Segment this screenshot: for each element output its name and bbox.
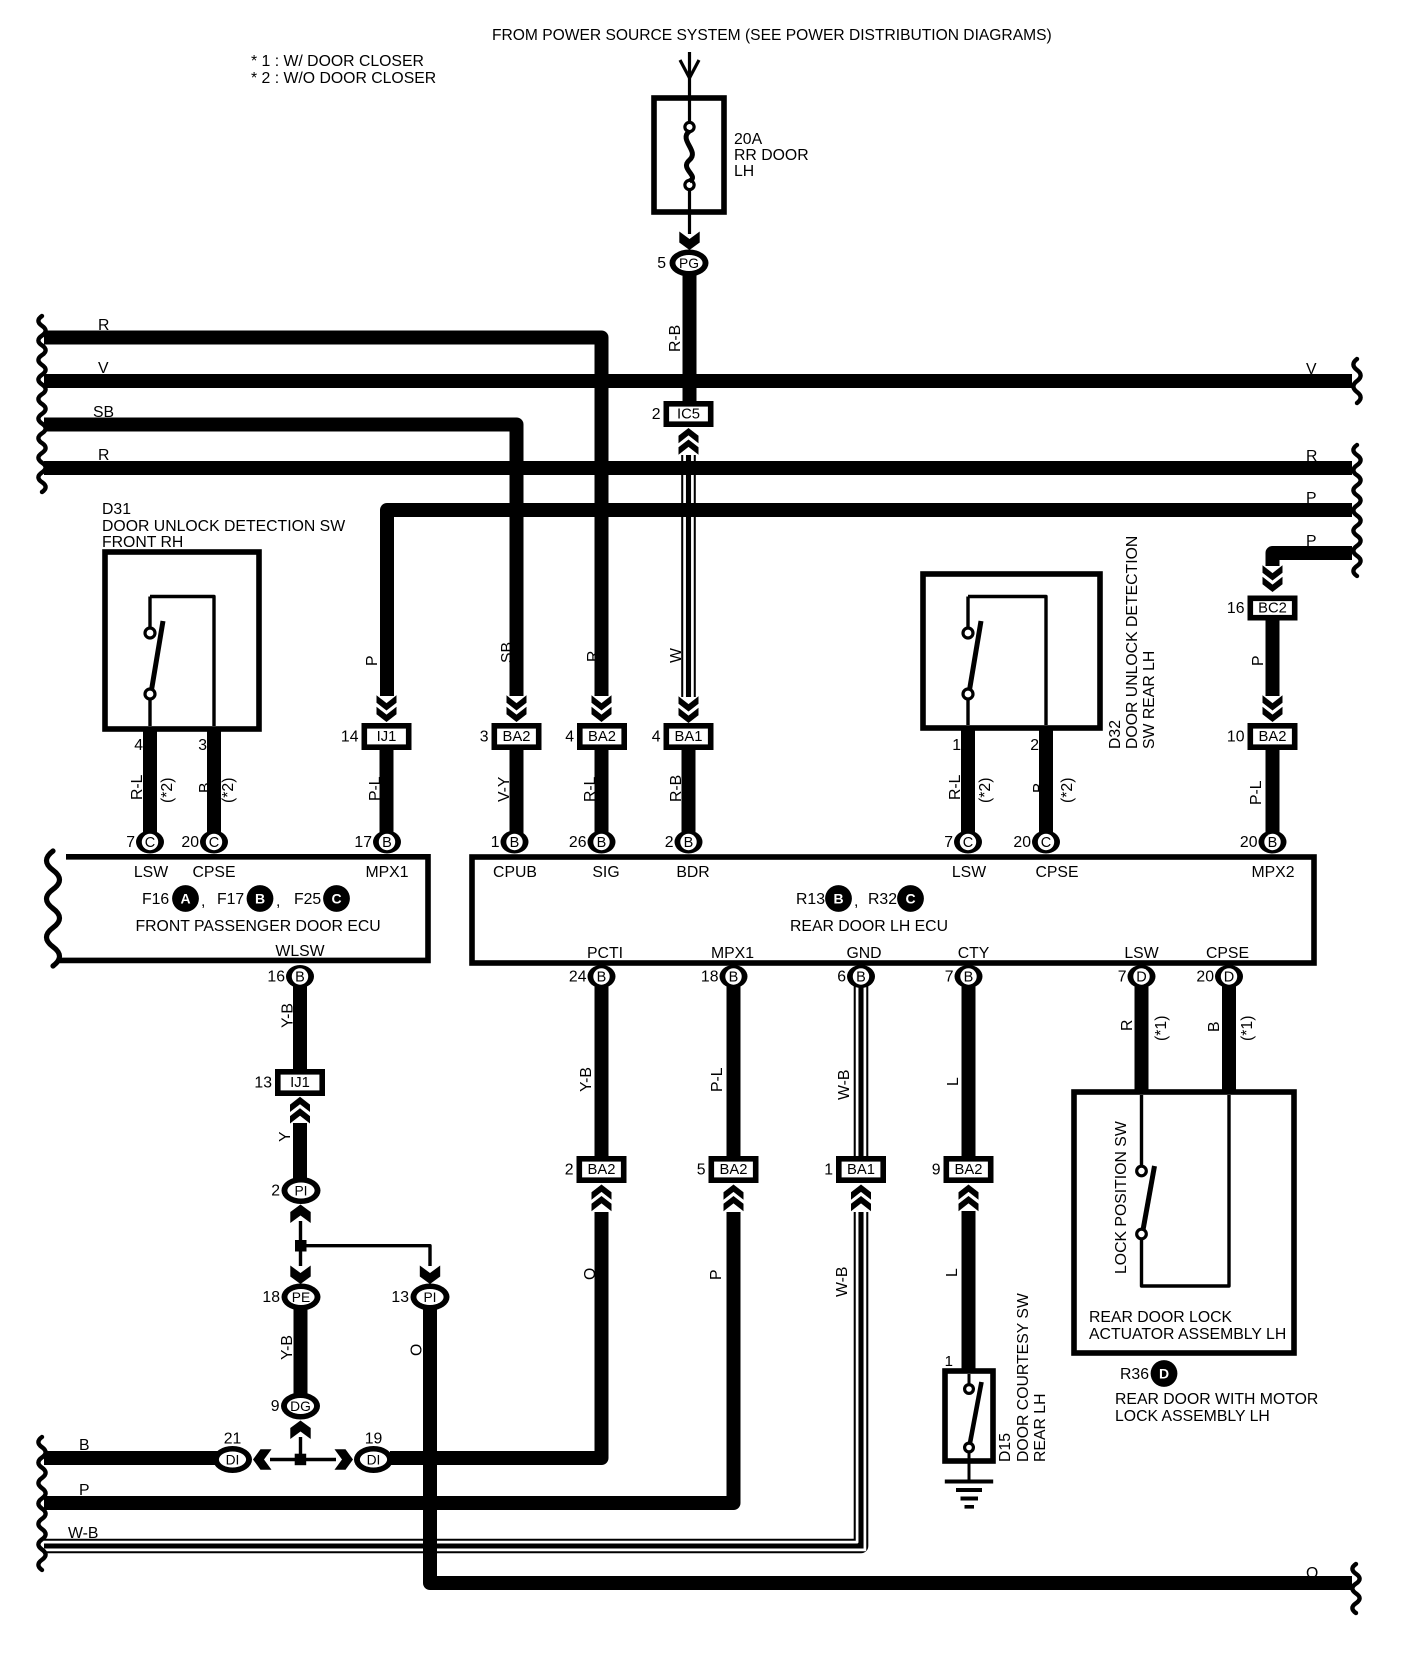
svg-text:SB: SB	[93, 404, 114, 421]
svg-text:9: 9	[271, 1398, 280, 1415]
svg-text:D32: D32	[1107, 720, 1124, 749]
wire between DI connectors	[270, 1458, 336, 1461]
svg-text:SIG: SIG	[592, 864, 619, 881]
svg-text:R: R	[585, 651, 602, 662]
junction node on B wire	[295, 1454, 307, 1466]
svg-text:B: B	[1206, 1021, 1223, 1032]
right bus terminator curl V	[1353, 359, 1360, 403]
arrow into PE	[290, 1266, 310, 1285]
svg-text:7: 7	[1118, 969, 1127, 986]
wire L pin7 to BA2	[962, 976, 976, 1156]
svg-text:B: B	[1031, 782, 1048, 793]
svg-text:LOCK ASSEMBLY LH: LOCK ASSEMBLY LH	[1115, 1408, 1270, 1425]
svg-text:20: 20	[181, 834, 199, 851]
svg-text:C: C	[905, 891, 915, 907]
svg-text:B: B	[833, 891, 843, 907]
svg-text:CPSE: CPSE	[1035, 864, 1078, 881]
arrow into BA2 pin3	[507, 695, 527, 710]
svg-text:CPSE: CPSE	[1206, 945, 1249, 962]
svg-text:C: C	[1041, 835, 1051, 851]
hollow wire W from IC5 to BA1	[681, 455, 696, 697]
svg-text:BA2: BA2	[588, 1162, 616, 1178]
left bus terminator curl	[38, 316, 45, 492]
svg-text:R13: R13	[796, 891, 825, 908]
wire DG to B bus junction	[299, 1437, 302, 1458]
arrow into BC2	[1263, 565, 1283, 580]
svg-text:V: V	[1306, 361, 1317, 378]
arrow into PI 13	[420, 1266, 440, 1285]
svg-text:DI: DI	[226, 1452, 240, 1467]
svg-text:D: D	[1159, 1366, 1169, 1382]
switch D15 box	[945, 1371, 993, 1461]
svg-text:R32: R32	[868, 891, 897, 908]
svg-text:20A: 20A	[734, 131, 763, 148]
svg-text:W-B: W-B	[836, 1070, 853, 1100]
svg-text:Y-B: Y-B	[279, 1335, 296, 1360]
svg-text:FRONT PASSENGER DOOR ECU: FRONT PASSENGER DOOR ECU	[136, 918, 381, 935]
svg-text:B: B	[79, 1437, 90, 1454]
svg-text:,: ,	[276, 893, 280, 910]
svg-text:IJ1: IJ1	[377, 729, 397, 745]
ground symbol	[945, 1480, 993, 1484]
svg-text:6: 6	[837, 969, 846, 986]
svg-text:D: D	[1224, 970, 1234, 986]
wire R-L from BA2 to SIG pin	[595, 750, 609, 848]
wire R-B from PG to IC5	[683, 275, 697, 403]
svg-text:PCTI: PCTI	[587, 945, 623, 962]
wire junction down to PE	[299, 1247, 302, 1266]
switch D31 contacts	[150, 597, 214, 727]
svg-text:DOOR COURTESY SW: DOOR COURTESY SW	[1015, 1293, 1032, 1462]
rear door lock actuator assembly box	[1074, 1092, 1294, 1353]
svg-text:MPX1: MPX1	[711, 945, 754, 962]
bus wire W-B hollow bottom	[44, 1212, 861, 1546]
bus wire SB	[44, 425, 517, 697]
right bus terminator curl R P P	[1353, 445, 1360, 576]
svg-text:Y-B: Y-B	[280, 1003, 297, 1028]
rear door LH ECU box	[472, 857, 1314, 963]
wire V-Y from BA2 to CPUB pin	[510, 750, 524, 848]
svg-text:A: A	[180, 891, 190, 907]
svg-text:* 1 : W/ DOOR CLOSER: * 1 : W/ DOOR CLOSER	[251, 53, 424, 70]
svg-text:4: 4	[565, 729, 574, 746]
svg-text:R: R	[1306, 448, 1317, 465]
svg-text:REAR DOOR WITH MOTOR: REAR DOOR WITH MOTOR	[1115, 1391, 1318, 1408]
svg-text:D: D	[1136, 970, 1146, 986]
svg-text:P: P	[708, 1269, 725, 1280]
svg-text:B: B	[684, 835, 694, 851]
svg-text:FRONT RH: FRONT RH	[102, 534, 183, 551]
front passenger door ECU box	[58, 857, 428, 961]
svg-text:R: R	[98, 447, 109, 464]
svg-text:2: 2	[565, 1162, 574, 1179]
wire P-L from BA2 to MPX2 pin	[1266, 750, 1280, 848]
svg-text:C: C	[331, 891, 341, 907]
bus wire V	[44, 374, 1352, 388]
svg-text:BA1: BA1	[847, 1162, 875, 1178]
svg-text:9: 9	[932, 1162, 941, 1179]
svg-text:REAR DOOR LOCK: REAR DOOR LOCK	[1089, 1309, 1233, 1326]
svg-text:O: O	[1306, 1565, 1318, 1582]
arrow into BA2 pin4	[592, 695, 612, 710]
svg-text:19: 19	[365, 1431, 383, 1448]
svg-text:C: C	[963, 835, 973, 851]
svg-text:BA2: BA2	[503, 729, 531, 745]
junction node below PI	[295, 1240, 307, 1252]
wire L from BA2 to D15	[962, 1211, 976, 1372]
svg-text:P-L: P-L	[1248, 780, 1265, 805]
right bottom bus terminator curl	[1352, 1564, 1359, 1613]
svg-text:BC2: BC2	[1258, 601, 1287, 617]
svg-text:* 2 : W/O DOOR CLOSER: * 2 : W/O DOOR CLOSER	[251, 70, 436, 87]
arrow up into BA2 pin9	[959, 1185, 979, 1212]
svg-text:F25: F25	[294, 891, 321, 908]
arrow right into DI 19	[335, 1449, 354, 1469]
svg-text:SW REAR LH: SW REAR LH	[1141, 651, 1158, 749]
arrow up into BA2 pin5	[724, 1185, 744, 1212]
svg-text:2: 2	[271, 1183, 280, 1200]
svg-text:GND: GND	[846, 945, 881, 962]
svg-text:24: 24	[569, 969, 587, 986]
svg-text:FROM POWER SOURCE SYSTEM (SEE: FROM POWER SOURCE SYSTEM (SEE POWER DIST…	[492, 27, 1052, 44]
svg-text:R-L: R-L	[129, 774, 146, 800]
svg-text:B: B	[856, 970, 866, 986]
svg-text:1: 1	[952, 737, 961, 754]
svg-text:SB: SB	[499, 642, 516, 663]
svg-text:BA2: BA2	[1259, 729, 1287, 745]
svg-text:7: 7	[126, 834, 135, 851]
svg-text:1: 1	[491, 834, 500, 851]
svg-text:P-L: P-L	[709, 1067, 726, 1092]
svg-text:BA2: BA2	[720, 1162, 748, 1178]
svg-text:20: 20	[1240, 834, 1258, 851]
svg-text:L: L	[945, 1077, 962, 1086]
svg-text:P-L: P-L	[367, 776, 384, 801]
svg-text:ACTUATOR ASSEMBLY LH: ACTUATOR ASSEMBLY LH	[1089, 1326, 1286, 1343]
svg-text:21: 21	[224, 1431, 242, 1448]
svg-text:F16: F16	[142, 891, 169, 908]
svg-text:P: P	[1306, 490, 1317, 507]
svg-text:(*2): (*2)	[977, 778, 994, 803]
wire fuse to connector PG	[688, 212, 691, 234]
svg-text:B: B	[382, 835, 392, 851]
svg-text:(*2): (*2)	[159, 778, 176, 803]
svg-text:R-L: R-L	[947, 774, 964, 800]
svg-text:(*1): (*1)	[1239, 1016, 1256, 1041]
svg-text:W-B: W-B	[834, 1267, 851, 1297]
svg-text:(*2): (*2)	[220, 778, 237, 803]
svg-text:4: 4	[134, 737, 143, 754]
hollow wire W-B pin6 to BA1	[854, 976, 869, 1156]
bus wire R lower	[44, 461, 1352, 475]
svg-text:C: C	[209, 835, 219, 851]
svg-text:5: 5	[657, 255, 666, 272]
svg-text:R36: R36	[1120, 1366, 1149, 1383]
svg-text:F17: F17	[217, 891, 244, 908]
wire Y-B from WLSW pin to IJ1	[293, 976, 307, 1070]
svg-text:BA1: BA1	[675, 729, 703, 745]
svg-text:2: 2	[665, 834, 674, 851]
svg-text:18: 18	[701, 969, 719, 986]
svg-text:R-B: R-B	[668, 775, 685, 802]
bus wire R upper	[44, 338, 602, 697]
svg-text:REAR DOOR LH ECU: REAR DOOR LH ECU	[790, 918, 948, 935]
svg-text:R-L: R-L	[582, 776, 599, 802]
wire R-B from BA1 to BDR pin	[682, 750, 696, 848]
svg-text:2: 2	[1030, 737, 1039, 754]
svg-text:4: 4	[652, 729, 661, 746]
wire O from DI 19 to BA2 pin2	[390, 1212, 602, 1458]
svg-text:(*1): (*1)	[1153, 1016, 1170, 1041]
svg-text:17: 17	[354, 834, 372, 851]
svg-text:(*2): (*2)	[1059, 778, 1076, 803]
svg-text:WLSW: WLSW	[275, 943, 324, 960]
svg-text:3: 3	[198, 737, 207, 754]
arrow left into DI 21	[253, 1449, 272, 1469]
svg-text:10: 10	[1227, 729, 1245, 746]
bus wire B bottom	[44, 1451, 218, 1465]
svg-text:DOOR UNLOCK DETECTION: DOOR UNLOCK DETECTION	[1124, 536, 1141, 749]
svg-text:P: P	[1306, 533, 1317, 550]
svg-text:PI: PI	[294, 1183, 307, 1198]
svg-text:C: C	[145, 835, 155, 851]
svg-text:LSW: LSW	[134, 864, 168, 881]
svg-text:BA2: BA2	[588, 729, 616, 745]
svg-text:B: B	[255, 891, 265, 907]
svg-text:Y-B: Y-B	[578, 1067, 595, 1092]
switch D31 box	[105, 552, 259, 729]
bus wire P bottom	[44, 1212, 734, 1503]
wire Y from IJ1 to PI	[293, 1123, 307, 1180]
arrow into PG	[679, 232, 699, 251]
arrow up into PI bottom	[290, 1205, 310, 1224]
svg-text:LSW: LSW	[952, 864, 986, 881]
svg-text:P: P	[1250, 655, 1267, 666]
svg-text:R: R	[1119, 1020, 1136, 1031]
svg-text:16: 16	[1227, 600, 1245, 617]
svg-text:CTY: CTY	[958, 945, 990, 962]
svg-text:IJ1: IJ1	[290, 1075, 310, 1091]
svg-text:LH: LH	[734, 163, 754, 180]
svg-text:R-B: R-B	[667, 325, 684, 352]
svg-text:2: 2	[652, 406, 661, 423]
svg-text:MPX2: MPX2	[1251, 864, 1294, 881]
wire P-L pin18 to BA2	[727, 976, 741, 1156]
svg-text:B: B	[295, 970, 305, 986]
svg-text:V-Y: V-Y	[496, 776, 513, 802]
svg-text:REAR LH: REAR LH	[1032, 1394, 1049, 1462]
svg-text:D31: D31	[102, 501, 131, 518]
switch D32 contacts	[968, 597, 1046, 726]
svg-text:R: R	[98, 317, 109, 334]
svg-text:14: 14	[341, 729, 359, 746]
svg-text:,: ,	[201, 893, 205, 910]
svg-text:D15: D15	[997, 1433, 1014, 1462]
svg-text:CPUB: CPUB	[493, 864, 537, 881]
wire O from PI 13 to bottom bus	[430, 1309, 1352, 1583]
wire P-L from IJ1 to MPX1 pin	[380, 750, 394, 848]
svg-text:PE: PE	[292, 1290, 310, 1305]
arrow up into IJ1 bottom	[290, 1097, 310, 1124]
svg-text:BDR: BDR	[676, 864, 709, 881]
svg-text:B: B	[964, 970, 974, 986]
svg-text:16: 16	[267, 969, 285, 986]
arrow into IJ1	[377, 695, 397, 710]
svg-text:1: 1	[824, 1162, 833, 1179]
wire P from BC2 to BA2	[1266, 620, 1280, 696]
svg-text:3: 3	[480, 729, 489, 746]
wire D31 pin4 to LSW	[143, 727, 157, 848]
svg-text:L: L	[944, 1268, 961, 1277]
switch D15 contacts	[968, 1374, 971, 1384]
arrow into BA2 pin10	[1263, 695, 1283, 710]
svg-text:,: ,	[854, 893, 858, 910]
arrow into BA1 top	[679, 696, 699, 711]
svg-text:1: 1	[945, 1353, 953, 1370]
svg-text:7: 7	[944, 834, 953, 851]
svg-text:W: W	[668, 648, 685, 663]
svg-text:O: O	[582, 1268, 599, 1280]
fuse 20A RR DOOR LH	[654, 98, 724, 212]
svg-text:B: B	[1268, 835, 1278, 851]
svg-text:CPSE: CPSE	[192, 864, 235, 881]
svg-text:PI: PI	[423, 1290, 436, 1305]
wire Y-B pin24 to BA2	[595, 976, 609, 1156]
svg-text:18: 18	[262, 1289, 280, 1306]
arrow up into IC5	[679, 428, 699, 455]
svg-text:LOCK POSITION SW: LOCK POSITION SW	[1113, 1121, 1130, 1274]
svg-text:BA2: BA2	[955, 1162, 983, 1178]
switch D32 box	[923, 574, 1100, 728]
arrow up into DG bottom	[290, 1421, 310, 1440]
wire branch to PI 13	[301, 1246, 431, 1266]
svg-text:20: 20	[1196, 969, 1214, 986]
svg-text:B: B	[597, 835, 607, 851]
svg-text:20: 20	[1013, 834, 1031, 851]
wire B pin20D to actuator	[1222, 976, 1236, 1094]
svg-text:PG: PG	[679, 256, 699, 271]
svg-text:13: 13	[391, 1289, 409, 1306]
svg-text:LSW: LSW	[1124, 945, 1158, 962]
svg-text:DG: DG	[290, 1399, 311, 1414]
left bottom bus terminator curl	[38, 1437, 45, 1570]
svg-text:B: B	[510, 835, 520, 851]
power feed wire from power source	[688, 52, 691, 98]
svg-text:P: P	[79, 1482, 90, 1499]
svg-text:26: 26	[569, 834, 587, 851]
wire PI to junction	[299, 1221, 302, 1247]
svg-text:P: P	[364, 655, 381, 666]
wire R pin7D to actuator	[1135, 976, 1149, 1094]
wire D31 pin3 to CPSE	[207, 727, 221, 848]
wire D32 pin2 to CPSE	[1039, 726, 1053, 848]
svg-text:B: B	[729, 970, 739, 986]
svg-text:DI: DI	[367, 1452, 381, 1467]
svg-text:MPX1: MPX1	[365, 864, 408, 881]
svg-text:O: O	[409, 1344, 426, 1356]
svg-text:DOOR UNLOCK DETECTION SW: DOOR UNLOCK DETECTION SW	[102, 518, 345, 535]
svg-text:5: 5	[697, 1162, 706, 1179]
svg-text:Y: Y	[277, 1131, 294, 1142]
svg-text:7: 7	[945, 969, 954, 986]
lock position switch contacts	[1140, 1095, 1143, 1166]
bus wire P	[387, 510, 1352, 696]
svg-text:13: 13	[254, 1075, 272, 1092]
svg-text:W-B: W-B	[68, 1525, 98, 1542]
wire D32 pin1 to LSW	[961, 726, 975, 848]
arrow up into BA2 pin2 lower	[592, 1185, 612, 1212]
arrow up into BA1 pin1	[851, 1185, 871, 1212]
svg-text:RR DOOR: RR DOOR	[734, 147, 809, 164]
wire Y-B from PE to DG	[294, 1309, 308, 1394]
bus wire P short to BC2	[1273, 553, 1353, 566]
svg-text:B: B	[197, 782, 214, 793]
svg-text:V: V	[98, 360, 109, 377]
svg-text:B: B	[597, 970, 607, 986]
svg-text:IC5: IC5	[677, 407, 700, 423]
